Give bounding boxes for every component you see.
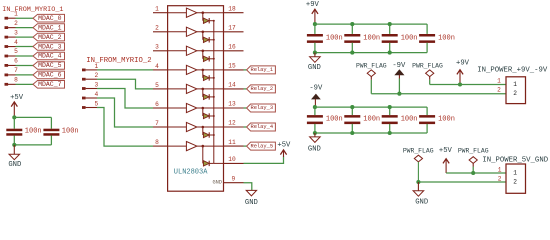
connector J1 pin 2 <box>5 26 16 29</box>
junction C3 bottom <box>388 51 392 55</box>
wire J1 pin 2 to MDAC_1 tag <box>16 27 34 29</box>
svg-text:3: 3 <box>155 44 159 51</box>
U1 COM bus <box>213 21 215 164</box>
svg-text:13: 13 <box>228 101 236 108</box>
junction C2 bottom <box>350 51 354 55</box>
U1 input pin 7 stub <box>153 126 168 128</box>
svg-text:2: 2 <box>498 175 502 182</box>
junction GND net <box>416 180 420 184</box>
wire +5V bank top rail <box>14 116 51 118</box>
wire J1 pin 1 to MDAC_0 tag <box>16 17 34 19</box>
junction diode D5 to COM bus <box>213 96 215 98</box>
svg-text:1: 1 <box>498 166 502 173</box>
wire J2.1 to U1 pin 4 <box>97 69 153 71</box>
svg-text:Relay_1: Relay_1 <box>250 67 273 73</box>
junction channel 3 output <box>202 50 205 53</box>
junction channel 8 output <box>202 145 205 148</box>
wire +5V bank bottom rail <box>14 144 51 146</box>
svg-text:Relay_5: Relay_5 <box>250 143 273 149</box>
wire J2.5 to U1 pin 8 <box>97 108 153 147</box>
U1 input pin 2 stub <box>153 31 168 33</box>
svg-text:100n: 100n <box>25 128 42 136</box>
wire J2.2 to U1 pin 5 <box>97 79 153 89</box>
svg-text:100n: 100n <box>363 116 380 124</box>
junction C6 top <box>350 105 354 109</box>
wire J1 pin 3 to MDAC_2 tag <box>16 36 34 38</box>
wire U1 pin 15 to Relay_1 tag <box>244 69 247 71</box>
wire +5V net to J4 pin 1 <box>446 172 506 174</box>
junction +5V bank bottom <box>12 143 16 147</box>
svg-text:PWR_FLAG: PWR_FLAG <box>412 63 443 70</box>
U1 input pin 6 stub <box>153 107 168 109</box>
svg-text:+5V: +5V <box>439 147 453 155</box>
capacitor C4 100n (+9V bank) <box>419 24 435 52</box>
diode D3 (channel 3 clamp) <box>203 51 214 62</box>
svg-text:1: 1 <box>155 6 159 13</box>
wire +9V top rail <box>315 23 427 25</box>
ground symbol (+9V bank) <box>308 53 321 73</box>
svg-text:2: 2 <box>513 90 517 97</box>
svg-text:100n: 100n <box>326 34 343 42</box>
wire U1 pin 10 to +5V <box>244 157 284 164</box>
svg-text:3: 3 <box>14 29 18 36</box>
svg-text:PWR_FLAG: PWR_FLAG <box>356 63 387 70</box>
junction diode D1 to COM bus <box>213 20 215 22</box>
junction +5V bank top <box>12 115 16 119</box>
power symbol -9V (flags row) <box>392 62 406 94</box>
svg-text:8: 8 <box>14 77 18 84</box>
svg-text:MDAC_0: MDAC_0 <box>38 15 62 22</box>
svg-text:100n: 100n <box>438 34 455 42</box>
net label MDAC_7 <box>33 81 65 89</box>
wire GND net to J4 pin 2 <box>418 181 506 183</box>
connector J4 body <box>506 164 526 193</box>
connector J1 pin 8 <box>5 83 16 86</box>
svg-text:12: 12 <box>228 120 236 127</box>
junction -9V bank bottom rail <box>313 131 317 135</box>
svg-text:3: 3 <box>94 82 98 89</box>
svg-text:IN_POWER_+9V_-9V: IN_POWER_+9V_-9V <box>477 66 548 74</box>
power flag PF2 symbol <box>426 70 434 85</box>
svg-text:+5V: +5V <box>10 94 24 102</box>
svg-text:10: 10 <box>228 156 236 163</box>
svg-text:16: 16 <box>228 44 236 51</box>
svg-text:100n: 100n <box>62 128 79 136</box>
junction C3 top <box>388 22 392 26</box>
wire U1 pin 14 to Relay_2 tag <box>244 88 247 90</box>
junction -9V rail <box>313 105 317 109</box>
svg-text:100n: 100n <box>438 116 455 124</box>
wire J2.4 to U1 pin 7 <box>97 98 153 127</box>
U1 COM bus to pin 10 <box>214 162 224 164</box>
wire U1 pin 9 to GND <box>244 183 252 191</box>
U1 output pin 13 stub <box>224 107 244 109</box>
wire -9V net to J3 pin 2 <box>371 93 506 95</box>
connector J3 body <box>506 77 526 104</box>
junction C7 bottom <box>388 131 392 135</box>
junction +9V net <box>458 82 462 86</box>
power symbol +9V (cap bank) <box>306 1 320 24</box>
U1 driver channel 7 buffer <box>168 122 224 131</box>
junction channel 2 output <box>202 31 205 34</box>
wire J2.3 to U1 pin 6 <box>97 89 153 109</box>
connector J1 pin 4 <box>5 45 16 48</box>
svg-text:8: 8 <box>155 139 159 146</box>
svg-text:GND: GND <box>8 161 21 169</box>
svg-text:100n: 100n <box>363 34 380 42</box>
U1 input pin 4 stub <box>153 69 168 71</box>
U1 driver channel 4 buffer <box>168 65 224 74</box>
op-amp array U1 ULN2803A body <box>168 6 224 192</box>
svg-text:4: 4 <box>94 91 98 98</box>
svg-text:2: 2 <box>155 25 159 32</box>
svg-text:7: 7 <box>14 67 18 74</box>
U1 output pin 14 stub <box>224 88 244 90</box>
svg-text:4: 4 <box>155 63 159 70</box>
svg-text:7: 7 <box>155 120 159 127</box>
wire -9V bank bottom rail <box>315 132 427 134</box>
svg-text:ULN2803A: ULN2803A <box>174 169 208 177</box>
svg-text:GND: GND <box>245 199 258 207</box>
wire J1 pin 6 to MDAC_5 tag <box>16 64 34 66</box>
net label MDAC_4 <box>33 52 65 60</box>
power symbol +5V (at U1 COM) <box>277 141 291 157</box>
wire J1 pin 5 to MDAC_4 tag <box>16 55 34 57</box>
svg-text:MDAC_7: MDAC_7 <box>38 81 62 88</box>
svg-text:PWR_FLAG: PWR_FLAG <box>403 147 434 154</box>
net label MDAC_1 <box>33 24 65 32</box>
capacitor C2 100n (+9V bank) <box>344 24 360 52</box>
svg-text:5: 5 <box>155 82 159 89</box>
junction channel 5 output <box>202 88 205 91</box>
junction channel 7 output <box>202 126 205 129</box>
svg-text:GND: GND <box>415 199 428 207</box>
svg-text:-9V: -9V <box>392 62 406 70</box>
net label Relay_3 <box>247 104 276 112</box>
U1 output pin 18 stub <box>224 12 244 14</box>
svg-text:GND: GND <box>308 145 321 153</box>
power symbol +9V (flags row) <box>456 60 470 85</box>
svg-text:2: 2 <box>94 72 98 79</box>
net label MDAC_6 <box>33 71 65 79</box>
svg-text:Relay_3: Relay_3 <box>250 105 273 111</box>
net label MDAC_5 <box>33 62 65 69</box>
diode D2 (channel 2 clamp) <box>203 32 214 43</box>
svg-text:5: 5 <box>94 101 98 108</box>
svg-text:GND: GND <box>308 64 321 72</box>
svg-text:IN_FROM_MYRIO_1: IN_FROM_MYRIO_1 <box>2 6 63 14</box>
svg-text:100n: 100n <box>326 116 343 124</box>
power flag PF4 symbol <box>469 157 477 173</box>
U1 driver channel 6 buffer <box>168 103 224 112</box>
svg-text:2: 2 <box>497 87 501 94</box>
svg-text:MDAC_3: MDAC_3 <box>38 43 62 50</box>
svg-text:6: 6 <box>155 101 159 108</box>
power symbol -9V (cap bank) <box>309 84 323 107</box>
svg-text:MDAC_6: MDAC_6 <box>38 72 62 79</box>
U1 driver channel 1 buffer <box>168 8 224 17</box>
svg-text:MDAC_1: MDAC_1 <box>38 24 62 31</box>
connector J2 pin 4 <box>82 97 97 100</box>
diode D4 (channel 4 clamp) <box>203 70 214 81</box>
power flag PF3 symbol <box>414 155 422 182</box>
junction channel 1 output <box>202 11 205 14</box>
svg-text:+5V: +5V <box>277 141 291 149</box>
net label Relay_2 <box>247 85 276 93</box>
U1 output pin 12 stub <box>224 126 244 128</box>
junction C2 top <box>350 22 354 26</box>
U1 output pin 16 stub <box>224 50 244 52</box>
capacitor C5 100n (-9V bank) <box>307 107 323 133</box>
junction +9V rail <box>313 22 317 26</box>
connector J1 pin 6 <box>5 64 16 67</box>
junction channel 4 output <box>202 69 205 72</box>
svg-text:2: 2 <box>14 20 18 27</box>
junction +5V net to J4 pin 1 <box>471 171 475 175</box>
junction diode D6 to COM bus <box>213 115 215 117</box>
U1 output pin 17 stub <box>224 31 244 33</box>
svg-text:4: 4 <box>14 39 18 46</box>
net label Relay_5 <box>247 142 276 150</box>
U1 pin 10 stub <box>224 162 244 164</box>
junction C7 top <box>388 105 392 109</box>
wire J1 pin 8 to MDAC_7 tag <box>16 83 34 85</box>
svg-text:GND: GND <box>212 180 222 186</box>
junction C6 bottom <box>350 131 354 135</box>
U1 input pin 8 stub <box>153 145 168 147</box>
svg-text:1: 1 <box>14 10 18 17</box>
U1 input pin 1 stub <box>153 12 168 14</box>
net label Relay_1 <box>247 66 276 74</box>
svg-text:Relay_2: Relay_2 <box>250 86 273 92</box>
svg-text:2: 2 <box>513 179 517 186</box>
svg-text:1: 1 <box>513 81 517 88</box>
ground symbol (-9V bank) <box>308 133 321 153</box>
U1 output pin 11 stub <box>224 145 244 147</box>
capacitor C9 100n (+5V bank) <box>6 117 22 144</box>
wire +9V bank bottom rail <box>315 52 427 54</box>
connector J2 pin 5 <box>82 106 97 109</box>
svg-text:11: 11 <box>228 139 236 146</box>
wire J1 pin 7 to MDAC_6 tag <box>16 74 34 76</box>
junction +9V bank bottom rail <box>313 51 317 55</box>
junction diode D7 to COM bus <box>213 134 215 136</box>
svg-text:MDAC_4: MDAC_4 <box>38 53 62 60</box>
connector J1 pin 1 <box>5 17 16 20</box>
net label MDAC_0 <box>33 14 65 22</box>
svg-text:1: 1 <box>94 63 98 70</box>
svg-text:IN_POWER_5V_GND: IN_POWER_5V_GND <box>482 156 548 164</box>
wire J1 pin 4 to MDAC_3 tag <box>16 46 34 48</box>
connector J2 pin 1 <box>82 69 97 72</box>
ground symbol (J4 pin 2) <box>413 182 428 207</box>
junction diode D4 to COM bus <box>213 77 215 79</box>
svg-text:+9V: +9V <box>306 1 320 9</box>
connector J1 pin 7 <box>5 74 16 77</box>
wire +9V net to J3 pin 1 <box>430 84 506 86</box>
svg-text:PWR_FLAG: PWR_FLAG <box>458 147 489 154</box>
svg-text:9: 9 <box>232 175 236 182</box>
U1 input pin 3 stub <box>153 50 168 52</box>
svg-text:1: 1 <box>513 170 517 177</box>
U1 driver channel 3 buffer <box>168 46 224 55</box>
svg-text:5: 5 <box>14 48 18 55</box>
U1 pin 9 stub <box>224 182 244 184</box>
U1 driver channel 8 buffer <box>168 142 224 151</box>
capacitor C3 100n (+9V bank) <box>382 24 398 52</box>
svg-text:MDAC_2: MDAC_2 <box>38 34 62 41</box>
svg-text:18: 18 <box>228 5 236 12</box>
svg-text:17: 17 <box>228 25 236 32</box>
diode D8 (channel 8 clamp) <box>203 146 214 166</box>
power symbol +5V (flags row) <box>439 147 453 173</box>
wire -9V top rail <box>315 106 427 108</box>
power symbol +5V (cap bank) <box>10 94 24 117</box>
diode D7 (channel 7 clamp) <box>203 127 214 138</box>
U1 driver channel 2 buffer <box>168 27 224 36</box>
diode D1 (channel 1 clamp) <box>203 13 214 24</box>
wire U1 pin 11 to Relay_5 tag <box>244 145 247 147</box>
wire U1 pin 13 to Relay_3 tag <box>244 107 247 109</box>
capacitor C8 100n (-9V bank) <box>419 107 435 133</box>
net label MDAC_2 <box>33 33 65 41</box>
svg-text:100n: 100n <box>401 116 418 124</box>
svg-text:+9V: +9V <box>456 60 470 68</box>
ground symbol (+5V bank) <box>8 145 21 169</box>
svg-text:6: 6 <box>14 58 18 65</box>
connector J1 pin 3 <box>5 36 16 39</box>
junction diode D3 to COM bus <box>213 58 215 60</box>
net label MDAC_3 <box>33 43 65 51</box>
svg-text:Relay_4: Relay_4 <box>250 124 273 130</box>
diode D5 (channel 5 clamp) <box>203 89 214 100</box>
U1 output pin 15 stub <box>224 69 244 71</box>
junction channel 6 output <box>202 107 205 110</box>
svg-text:MDAC_5: MDAC_5 <box>38 62 62 69</box>
capacitor C6 100n (-9V bank) <box>344 107 360 133</box>
ground symbol (U1 pin 9) <box>245 190 258 207</box>
svg-text:14: 14 <box>228 82 236 89</box>
wire U1 pin 12 to Relay_4 tag <box>244 126 247 128</box>
connector J2 pin 2 <box>82 78 97 81</box>
U1 input pin 5 stub <box>153 88 168 90</box>
svg-text:15: 15 <box>228 63 236 70</box>
capacitor C10 100n (+5V bank) <box>43 117 59 144</box>
capacitor C1 100n (+9V bank) <box>307 24 323 52</box>
diode D6 (channel 6 clamp) <box>203 108 214 119</box>
connector J2 pin 3 <box>82 87 97 90</box>
connector J1 pin 5 <box>5 55 16 58</box>
power flag PF1 symbol <box>367 70 375 94</box>
junction -9V net <box>397 92 401 96</box>
net label Relay_4 <box>247 123 276 131</box>
svg-text:-9V: -9V <box>309 84 323 92</box>
junction diode D2 to COM bus <box>213 39 215 41</box>
svg-text:100n: 100n <box>401 34 418 42</box>
svg-text:1: 1 <box>497 77 501 84</box>
capacitor C7 100n (-9V bank) <box>382 107 398 133</box>
U1 driver channel 5 buffer <box>168 84 224 93</box>
